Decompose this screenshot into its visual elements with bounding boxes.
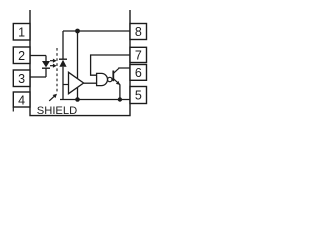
amp input wire: [63, 84, 69, 86]
amp ground wire: [77, 88, 79, 100]
package bottom-left stub: [12, 107, 14, 111]
light emission arrows: [50, 59, 57, 68]
svg-text:1: 1: [18, 25, 25, 39]
pin box 2: [13, 47, 30, 64]
svg-text:3: 3: [18, 72, 25, 86]
wire LED cathode to pin3: [30, 76, 46, 78]
output bubble: [108, 77, 112, 81]
enable wire pin7: [91, 55, 130, 75]
pin box 6: [130, 65, 147, 81]
emitter wire to ground rail: [119, 84, 121, 99]
svg-text:7: 7: [135, 49, 142, 63]
photodiode: [59, 31, 67, 100]
pin box 4: [13, 92, 30, 107]
svg-text:4: 4: [18, 93, 25, 107]
nand gate U1: [97, 73, 108, 85]
pin box 5: [130, 87, 147, 104]
LED D1: [42, 56, 50, 78]
package outline (U shape): [30, 10, 130, 116]
transistor Q1: [112, 68, 120, 85]
svg-text:8: 8: [135, 25, 142, 39]
amp output wire: [84, 82, 97, 84]
node emitter junction: [118, 97, 122, 101]
ground rail pin5: [60, 99, 130, 101]
pin box 1: [13, 24, 30, 41]
pin box 8: [130, 24, 147, 40]
wire collector to pin6: [119, 67, 130, 69]
shield arrow: [49, 94, 57, 101]
pin box 7: [130, 47, 147, 62]
vcc rail pin8: [63, 30, 130, 32]
svg-text:5: 5: [135, 89, 142, 103]
shield dashed line: [56, 48, 58, 93]
wire pin2 to LED anode: [30, 55, 46, 57]
svg-text:SHIELD: SHIELD: [37, 105, 77, 117]
svg-text:2: 2: [18, 49, 25, 63]
amplifier A1: [69, 72, 84, 93]
bias wire from vcc node to amp: [77, 31, 79, 79]
node ground junction: [75, 97, 80, 102]
node vcc junction: [75, 29, 80, 34]
pin box 3: [13, 70, 30, 87]
svg-text:6: 6: [135, 66, 142, 80]
